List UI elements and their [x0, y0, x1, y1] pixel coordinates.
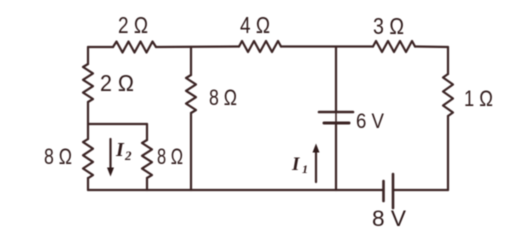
wire 6V branch lower	[335, 124, 337, 190]
arrow I2 down	[109, 139, 111, 169]
resistor 2ohm top	[113, 42, 156, 53]
svg-text:8 Ω: 8 Ω	[44, 144, 72, 169]
svg-text:6 V: 6 V	[356, 110, 384, 133]
svg-text:2: 2	[124, 148, 132, 163]
battery 8V short plate	[382, 181, 385, 201]
wire top-right segment	[415, 45, 448, 48]
resistor 3ohm top	[373, 41, 415, 52]
wire middle branch lower	[190, 113, 192, 190]
arrow I1 up	[315, 151, 317, 182]
wire 6V branch upper	[335, 47, 337, 111]
wire middle branch upper lead	[190, 47, 192, 75]
wire sub horizontal	[88, 123, 147, 125]
wire top mid segment	[156, 45, 239, 48]
wire right vertical upper	[447, 47, 449, 74]
svg-text:8 Ω: 8 Ω	[157, 144, 183, 169]
wire bottom right segment	[393, 189, 448, 191]
svg-text:2 Ω: 2 Ω	[118, 12, 148, 38]
battery 8V long plate	[392, 174, 395, 208]
resistor 8ohm middle	[186, 75, 196, 113]
svg-text:I: I	[115, 139, 125, 161]
resistor 2ohm left vertical	[83, 64, 93, 102]
wire bottom left segment	[88, 189, 383, 191]
battery 6V long plate	[319, 111, 353, 114]
resistor 4ohm top	[239, 41, 281, 52]
wire top segment to 3ohm	[281, 45, 373, 47]
wire top-left segment	[88, 46, 113, 48]
svg-text:4 Ω: 4 Ω	[240, 12, 270, 38]
svg-text:3 Ω: 3 Ω	[373, 13, 404, 39]
wire left vertical upper	[87, 47, 89, 64]
svg-text:I: I	[291, 154, 300, 175]
battery 6V short plate	[324, 122, 349, 125]
svg-text:8 V: 8 V	[372, 206, 406, 231]
resistor 8ohm left parallel	[83, 139, 93, 178]
wire right vertical lower	[447, 116, 449, 190]
resistor 1ohm right	[443, 74, 453, 116]
wire 6V between plates	[335, 112, 337, 123]
wire left bottom lead	[87, 178, 89, 190]
wire right parallel branch lead	[146, 124, 148, 140]
wire right parallel bottom lead	[146, 178, 148, 190]
svg-text:1 Ω: 1 Ω	[464, 86, 493, 111]
svg-text:8 Ω: 8 Ω	[209, 85, 237, 110]
resistor 8ohm right parallel	[142, 140, 152, 178]
svg-text:2 Ω: 2 Ω	[100, 70, 134, 96]
svg-text:1: 1	[302, 162, 308, 176]
wire left vertical to sub-node	[87, 102, 89, 139]
